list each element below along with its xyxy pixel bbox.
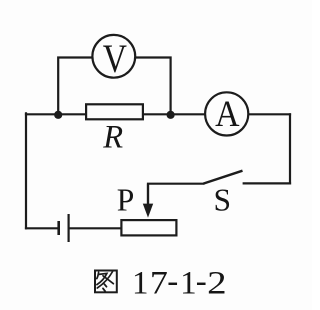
svg-text:1: 1	[132, 265, 149, 301]
svg-text:R: R	[102, 120, 123, 156]
冬 dot 1	[104, 284, 106, 287]
svg-text:1: 1	[180, 265, 197, 301]
wire voltmeter left branch	[58, 58, 93, 114]
svg-text:P: P	[117, 182, 135, 217]
rheostat box	[121, 220, 176, 235]
wire voltmeter right branch	[135, 58, 171, 114]
svg-text:2: 2	[207, 265, 227, 301]
node junction right dot	[167, 111, 175, 119]
冬 dot 2	[103, 288, 105, 291]
switch S blade	[203, 171, 242, 184]
rheostat wiper arrowhead	[143, 204, 153, 218]
svg-text:7: 7	[150, 265, 168, 301]
冬 stroke: top-left pie	[97, 272, 99, 278]
node junction left dot	[54, 111, 62, 119]
wire right vertical	[289, 114, 291, 183]
wire ammeter to right corner	[249, 113, 291, 115]
rheostat wiper arrow shaft	[147, 184, 149, 204]
wire wiper link to switch pivot	[148, 184, 203, 203]
wire left vertical	[25, 113, 27, 228]
battery negative plate (short)	[57, 221, 60, 235]
wire bottom to battery	[26, 227, 57, 229]
svg-text:-: -	[196, 263, 207, 299]
resistor R box	[86, 104, 143, 119]
冬 stroke: long pie from top right	[97, 272, 112, 289]
voltmeter U1 circle	[92, 35, 135, 78]
svg-text:A: A	[215, 94, 239, 135]
caption character 图 box	[95, 271, 117, 293]
wire main row left segment	[26, 113, 86, 115]
svg-text:S: S	[214, 182, 232, 217]
冬 stroke: horizontal-fold	[97, 273, 107, 284]
svg-text:-: -	[167, 263, 178, 299]
冬 stroke: right-falling na	[103, 276, 113, 284]
ammeter U2 circle	[205, 92, 248, 135]
battery positive plate (long)	[67, 214, 69, 242]
wire resistor to ammeter	[144, 113, 206, 115]
svg-text:V: V	[103, 36, 127, 81]
wire bottom right horizontal to switch contact	[244, 182, 290, 184]
wire battery to rheostat	[70, 227, 121, 229]
